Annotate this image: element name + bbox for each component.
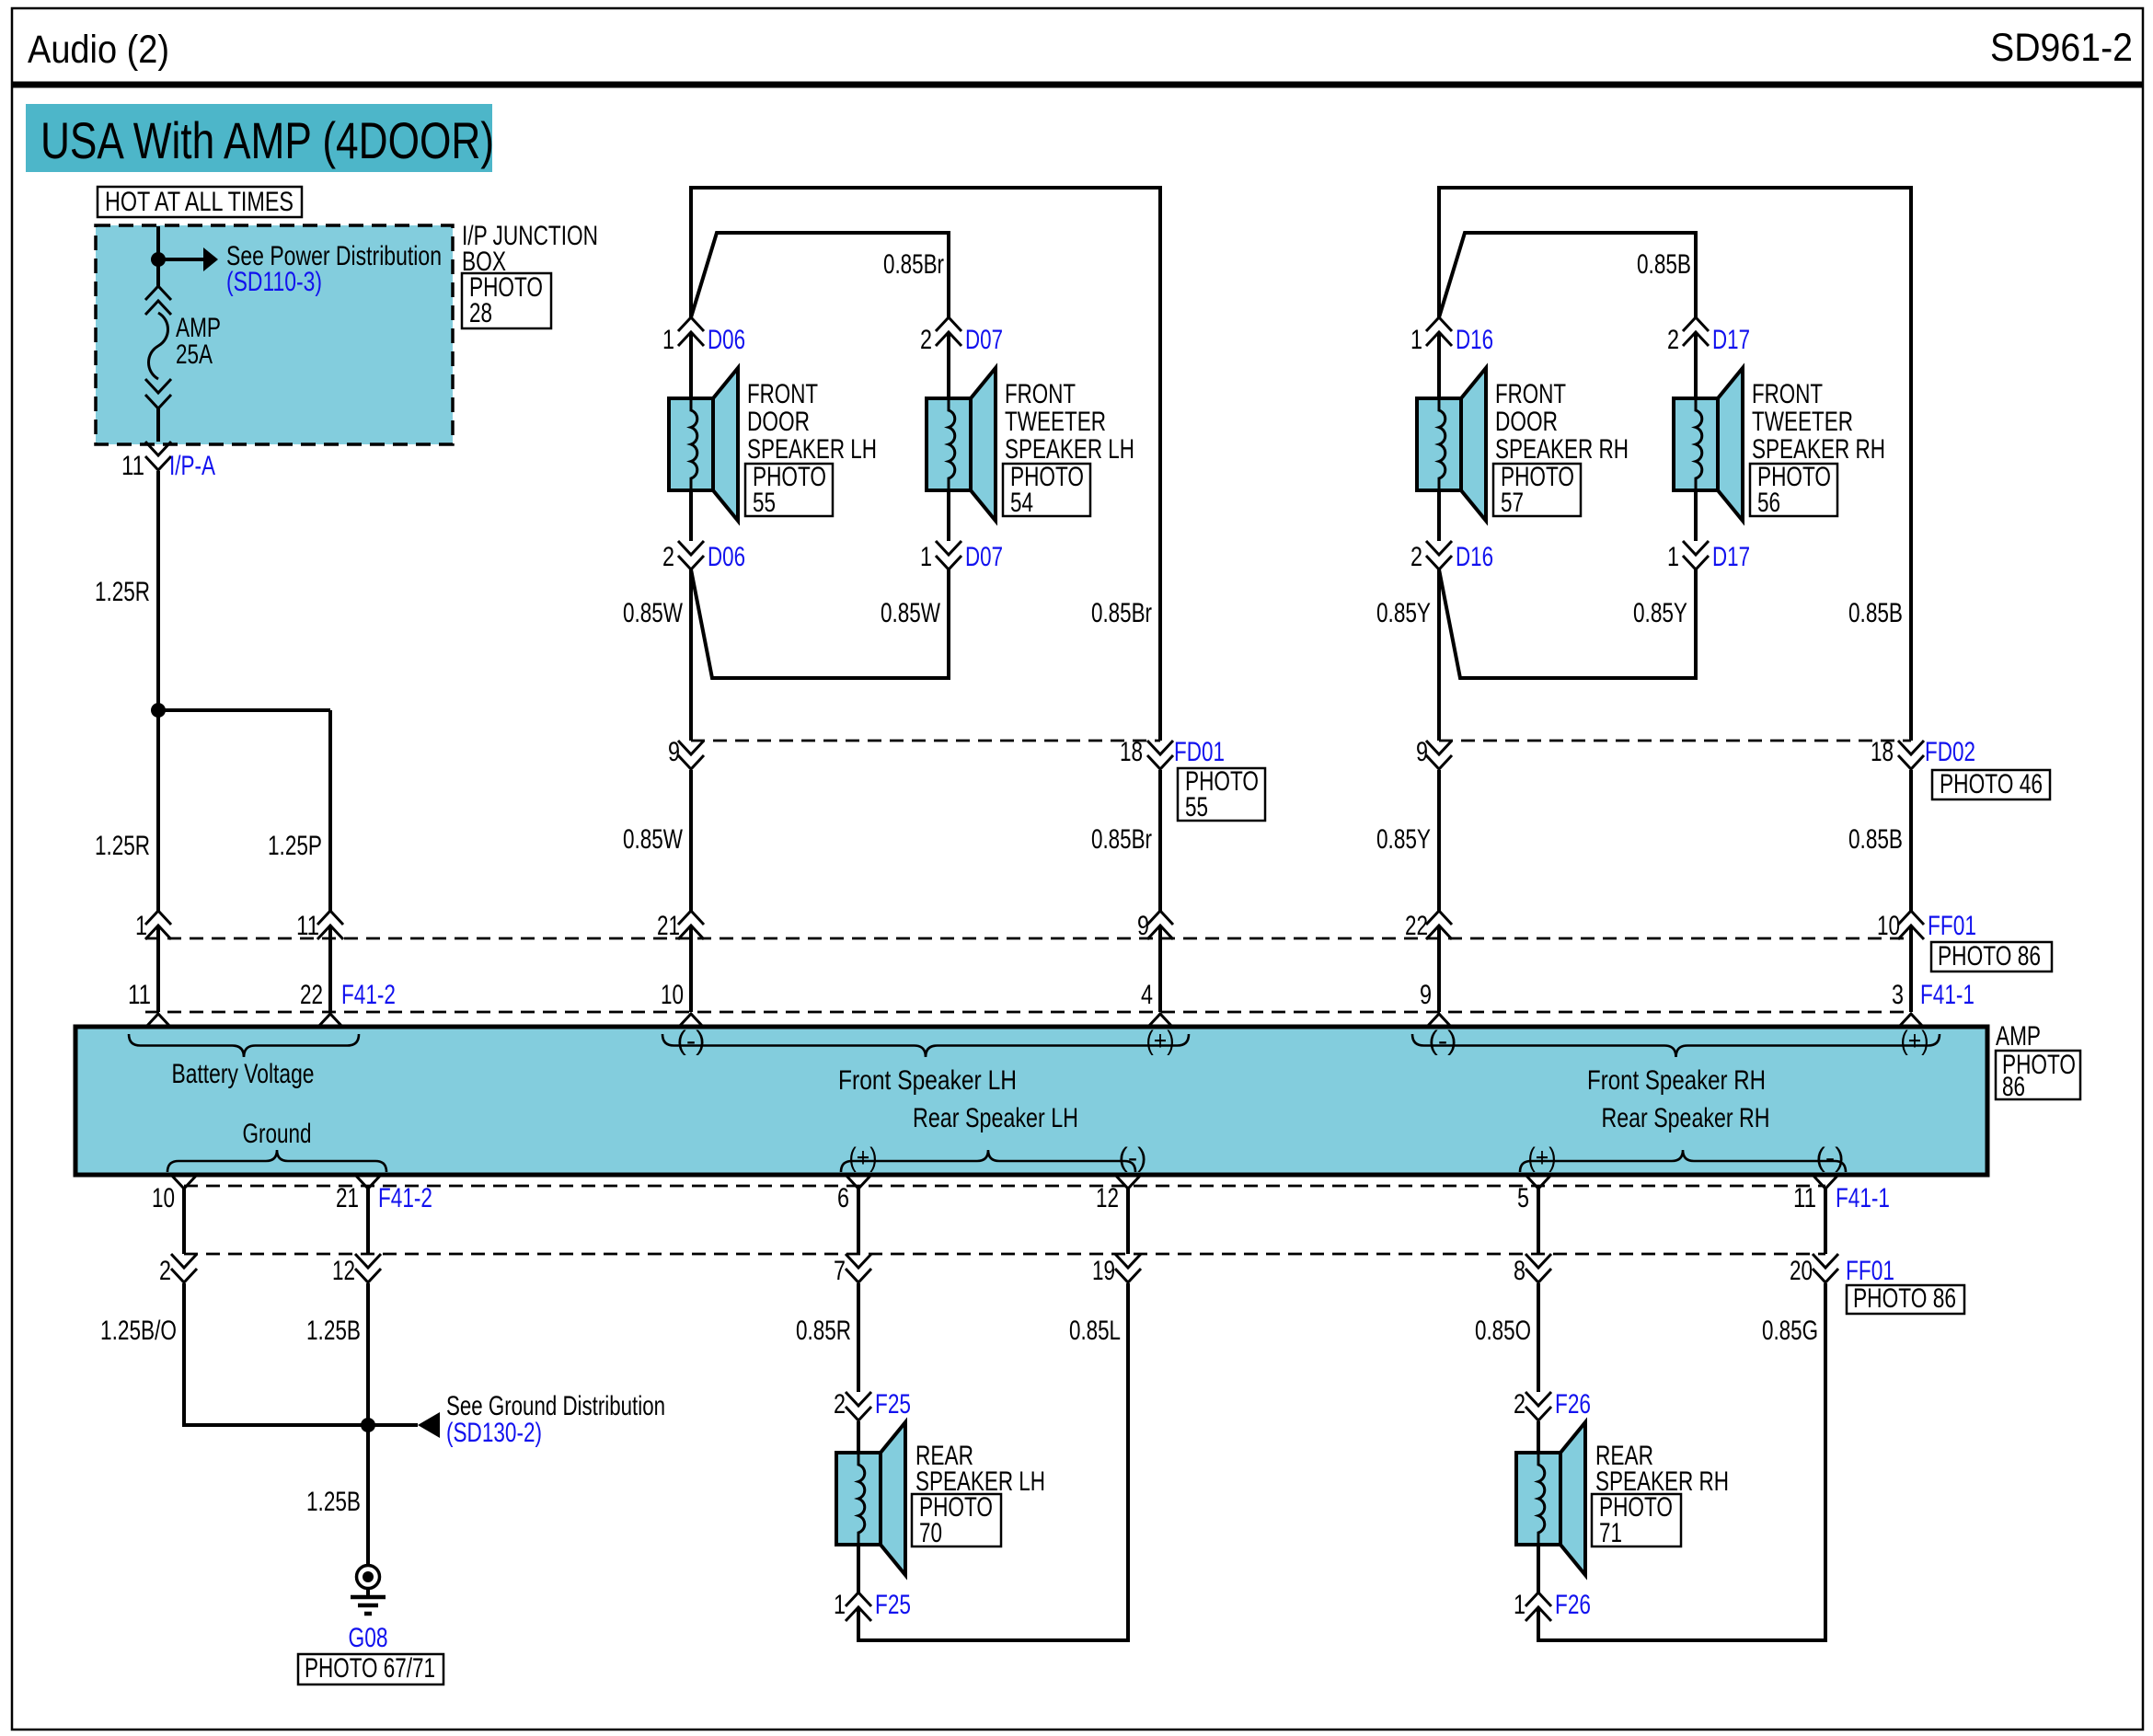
svg-text:18: 18 [1871,737,1894,767]
svg-text:(-): (-) [677,1026,706,1056]
svg-text:D16: D16 [1456,325,1493,355]
svg-text:11: 11 [128,980,151,1010]
svg-text:71: 71 [1599,1518,1622,1548]
svg-text:PHOTO 86: PHOTO 86 [1853,1283,1956,1314]
svg-text:2: 2 [159,1256,171,1286]
svg-text:SPEAKER RH: SPEAKER RH [1495,434,1629,465]
svg-text:1: 1 [1514,1590,1526,1620]
svg-text:Audio (2): Audio (2) [28,28,169,72]
svg-text:SPEAKER RH: SPEAKER RH [1752,434,1885,465]
svg-text:(+): (+) [1901,1026,1929,1056]
svg-text:10: 10 [1877,911,1900,941]
svg-text:FD01: FD01 [1174,737,1225,767]
svg-text:1.25B: 1.25B [306,1316,361,1346]
svg-text:0.85W: 0.85W [623,598,684,628]
svg-text:1: 1 [662,325,674,355]
svg-text:9: 9 [1416,737,1428,767]
svg-text:1.25P: 1.25P [268,831,322,861]
svg-text:(-): (-) [1119,1143,1147,1173]
svg-text:12: 12 [332,1256,355,1286]
svg-text:86: 86 [2002,1072,2025,1102]
svg-text:FRONT: FRONT [747,379,818,409]
svg-text:2: 2 [662,542,674,572]
svg-text:54: 54 [1010,488,1033,518]
svg-text:(SD130-2): (SD130-2) [446,1418,542,1448]
svg-text:F25: F25 [875,1590,911,1620]
svg-text:1.25B/O: 1.25B/O [100,1316,177,1346]
svg-text:2: 2 [1667,325,1679,355]
svg-text:1: 1 [135,911,147,941]
svg-text:0.85Br: 0.85Br [1091,598,1152,628]
svg-text:0.85B: 0.85B [1637,249,1691,280]
svg-text:22: 22 [1405,911,1428,941]
svg-text:19: 19 [1092,1256,1115,1286]
svg-text:TWEETER: TWEETER [1752,407,1853,437]
svg-text:9: 9 [1137,911,1149,941]
svg-text:1.25R: 1.25R [95,831,150,861]
svg-text:FRONT: FRONT [1495,379,1566,409]
svg-text:0.85L: 0.85L [1069,1316,1121,1346]
svg-text:D07: D07 [965,542,1003,572]
svg-text:4: 4 [1141,980,1153,1010]
svg-text:8: 8 [1514,1256,1526,1286]
svg-text:SD961-2: SD961-2 [1990,26,2133,70]
svg-text:55: 55 [753,488,776,518]
svg-text:0.85Br: 0.85Br [1091,824,1152,855]
svg-text:Ground: Ground [243,1119,312,1149]
svg-text:Rear Speaker LH: Rear Speaker LH [913,1103,1078,1133]
svg-text:2: 2 [1410,542,1422,572]
svg-text:10: 10 [152,1183,175,1213]
svg-text:F41-1: F41-1 [1836,1183,1890,1213]
svg-text:0.85Y: 0.85Y [1376,824,1431,855]
svg-text:2: 2 [834,1389,846,1420]
svg-text:FRONT: FRONT [1005,379,1076,409]
svg-text:2: 2 [920,325,932,355]
svg-text:I/P-A: I/P-A [169,451,215,481]
svg-text:1.25B: 1.25B [306,1487,361,1517]
svg-text:D17: D17 [1712,542,1750,572]
svg-text:DOOR: DOOR [747,407,810,437]
svg-text:PHOTO 46: PHOTO 46 [1940,769,2043,799]
svg-text:0.85R: 0.85R [796,1316,851,1346]
svg-text:SPEAKER LH: SPEAKER LH [1005,434,1134,465]
svg-text:D07: D07 [965,325,1003,355]
svg-text:G08: G08 [349,1623,388,1653]
svg-text:11: 11 [121,451,144,481]
svg-text:1: 1 [834,1590,846,1620]
svg-text:20: 20 [1790,1256,1813,1286]
svg-text:(+): (+) [1146,1026,1175,1056]
svg-text:5: 5 [1517,1183,1529,1213]
svg-text:Rear Speaker RH: Rear Speaker RH [1602,1103,1770,1133]
svg-text:18: 18 [1120,737,1143,767]
svg-text:0.85B: 0.85B [1848,598,1903,628]
svg-text:F25: F25 [875,1389,911,1420]
svg-text:PHOTO 67/71: PHOTO 67/71 [305,1653,435,1684]
svg-text:(+): (+) [849,1143,878,1173]
svg-text:FF01: FF01 [1846,1256,1894,1286]
svg-text:FRONT: FRONT [1752,379,1823,409]
svg-text:12: 12 [1096,1183,1119,1213]
svg-text:0.85Y: 0.85Y [1376,598,1431,628]
svg-text:1: 1 [920,542,932,572]
svg-text:56: 56 [1757,488,1780,518]
svg-text:D06: D06 [708,542,745,572]
svg-text:0.85Br: 0.85Br [883,249,944,280]
svg-text:FD02: FD02 [1925,737,1975,767]
svg-text:F26: F26 [1555,1590,1591,1620]
svg-text:D17: D17 [1712,325,1750,355]
svg-text:TWEETER: TWEETER [1005,407,1106,437]
svg-text:(-): (-) [1816,1143,1845,1173]
svg-text:1: 1 [1410,325,1422,355]
svg-text:1: 1 [1667,542,1679,572]
svg-text:21: 21 [657,911,680,941]
svg-text:10: 10 [661,980,684,1010]
svg-text:F41-2: F41-2 [378,1183,432,1213]
svg-text:F41-1: F41-1 [1920,980,1975,1010]
svg-text:(+): (+) [1528,1143,1557,1173]
svg-text:DOOR: DOOR [1495,407,1558,437]
svg-text:SPEAKER LH: SPEAKER LH [747,434,877,465]
svg-text:PHOTO 86: PHOTO 86 [1938,941,2041,971]
svg-text:7: 7 [834,1256,846,1286]
svg-text:D06: D06 [708,325,745,355]
svg-text:USA With AMP (4DOOR): USA With AMP (4DOOR) [40,111,494,169]
svg-text:F26: F26 [1555,1389,1591,1420]
svg-text:21: 21 [336,1183,359,1213]
svg-text:F41-2: F41-2 [341,980,396,1010]
svg-text:(SD110-3): (SD110-3) [226,267,322,297]
svg-text:0.85G: 0.85G [1762,1316,1818,1346]
svg-text:0.85B: 0.85B [1848,824,1903,855]
svg-text:AMP: AMP [1996,1021,2041,1052]
svg-text:(-): (-) [1429,1026,1457,1056]
svg-text:FF01: FF01 [1928,911,1976,941]
svg-text:0.85W: 0.85W [881,598,941,628]
svg-text:55: 55 [1185,792,1208,822]
svg-text:9: 9 [1420,980,1432,1010]
svg-text:Battery Voltage: Battery Voltage [172,1059,315,1089]
svg-text:1.25R: 1.25R [95,577,150,607]
svg-text:28: 28 [469,298,492,328]
svg-text:57: 57 [1501,488,1524,518]
svg-text:2: 2 [1514,1389,1526,1420]
svg-text:6: 6 [837,1183,849,1213]
svg-text:D16: D16 [1456,542,1493,572]
svg-text:0.85Y: 0.85Y [1633,598,1687,628]
svg-text:70: 70 [919,1518,942,1548]
svg-text:0.85W: 0.85W [623,824,684,855]
svg-text:11: 11 [296,911,319,941]
svg-text:25A: 25A [176,339,213,370]
svg-text:22: 22 [300,980,323,1010]
svg-text:11: 11 [1793,1183,1816,1213]
svg-text:0.85O: 0.85O [1475,1316,1531,1346]
svg-text:Front Speaker RH: Front Speaker RH [1587,1065,1766,1096]
svg-text:3: 3 [1892,980,1904,1010]
svg-text:9: 9 [668,737,680,767]
svg-text:Front Speaker LH: Front Speaker LH [838,1065,1017,1096]
svg-text:HOT AT ALL TIMES: HOT AT ALL TIMES [105,187,294,217]
